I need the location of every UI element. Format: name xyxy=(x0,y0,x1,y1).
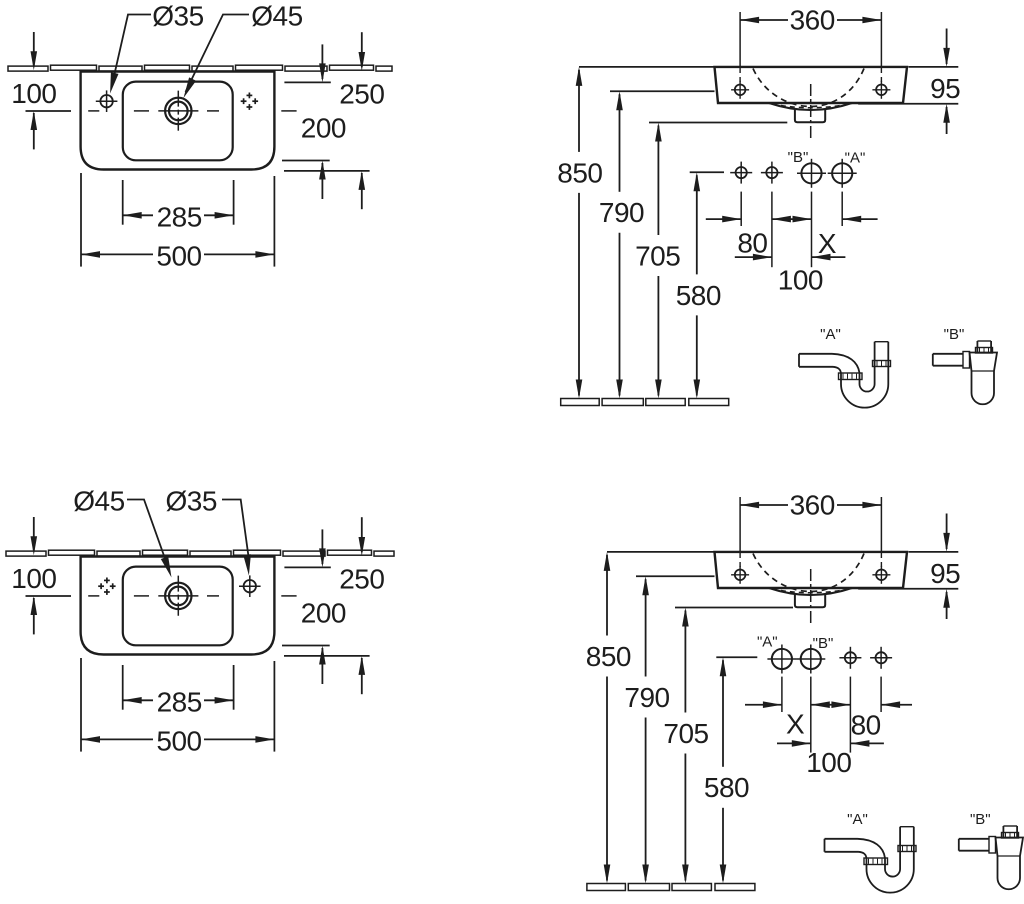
dimension 580 vertical line with arrows xyxy=(696,175,698,274)
svg-text:100: 100 xyxy=(778,265,823,296)
dimension 250 upper arrow xyxy=(361,517,363,552)
svg-text:850: 850 xyxy=(586,641,631,672)
dimension 285 line with arrows xyxy=(123,214,153,216)
dimension line 100 with arrows xyxy=(735,256,772,258)
svg-text:"B": "B" xyxy=(788,149,809,166)
wall tap hole marker large xyxy=(832,163,852,183)
wall tap hole marker small xyxy=(845,652,856,663)
svg-text:Ø35: Ø35 xyxy=(165,486,216,517)
dimension 250 lower arrow xyxy=(361,173,363,209)
drain vertical centreline xyxy=(177,576,179,616)
washbasin body (front elevation) xyxy=(715,67,908,103)
svg-text:250: 250 xyxy=(339,564,384,595)
dimension 790 extension line xyxy=(636,575,715,577)
washbasin body (front elevation) xyxy=(715,552,908,588)
svg-text:"B": "B" xyxy=(813,635,834,652)
dimension 360 line with arrows xyxy=(740,504,788,506)
dimension 705 extension line xyxy=(649,122,787,124)
svg-text:"A": "A" xyxy=(757,634,778,651)
dimension 580 vertical line with arrows xyxy=(722,660,724,767)
svg-text:500: 500 xyxy=(156,725,201,756)
drain vertical centreline xyxy=(177,91,179,131)
dashed bowl underside line xyxy=(772,104,849,108)
dimension 360 extension lines xyxy=(739,497,741,552)
dimension 360 line with arrows xyxy=(740,19,788,21)
siphon variant B (bottle trap) xyxy=(959,838,989,840)
dimension 250 lower arrow xyxy=(361,658,363,694)
dimension 360 extension lines xyxy=(739,12,741,67)
dimension 580 extension line xyxy=(690,171,724,173)
drain hole Ø45 (two concentric circles) xyxy=(165,583,191,609)
wall tap hole marker small xyxy=(736,167,747,178)
dimension 200 lower arrow xyxy=(321,163,323,199)
dimension 790 extension line xyxy=(610,90,715,92)
svg-text:"B": "B" xyxy=(944,326,965,343)
dimension 285 line with arrows xyxy=(123,699,153,701)
svg-text:Ø45: Ø45 xyxy=(251,1,302,32)
wall line (plan view) xyxy=(8,66,48,71)
svg-text:360: 360 xyxy=(790,4,835,35)
dimension 100 lower arrow xyxy=(33,113,35,149)
inner bowl outline (plan) xyxy=(123,567,233,646)
svg-text:100: 100 xyxy=(11,78,56,109)
dimension 285 extension lines xyxy=(122,180,124,225)
svg-text:285: 285 xyxy=(157,201,202,232)
svg-text:850: 850 xyxy=(557,157,602,188)
svg-text:Ø45: Ø45 xyxy=(73,486,124,517)
washbasin outer outline (plan) xyxy=(81,557,275,655)
siphon variant A (P-trap) xyxy=(799,353,832,355)
dimension 95 arrows xyxy=(946,514,948,550)
leader line to Ø45 hole xyxy=(127,500,170,573)
leader line to Ø35 hole xyxy=(111,15,151,89)
dimension 100 upper arrow xyxy=(33,517,35,551)
svg-text:100: 100 xyxy=(806,747,851,778)
tap hole Ø35 with centre cross xyxy=(244,580,256,592)
extension line bowl top edge xyxy=(284,81,330,83)
wall tap hole marker small xyxy=(876,652,887,663)
svg-text:285: 285 xyxy=(157,686,202,717)
siphon variant B (bottle trap) xyxy=(933,353,963,355)
svg-text:95: 95 xyxy=(930,558,960,589)
dimension 790 vertical line with arrows xyxy=(645,579,647,676)
bowl underside bulge xyxy=(769,588,852,595)
dimension line X / 80 with arrows xyxy=(745,704,782,706)
floor line (segmented) xyxy=(561,399,600,406)
dimension 500 line with arrows xyxy=(81,738,153,740)
svg-text:500: 500 xyxy=(156,240,201,271)
horizontal centreline dashes through drain xyxy=(88,595,99,597)
basin fixing hole xyxy=(735,570,746,581)
extension line bowl top edge xyxy=(284,566,330,568)
basin fixing hole xyxy=(876,85,887,96)
dimension 500 extension lines xyxy=(80,173,82,267)
dashed inner bowl contour xyxy=(753,69,864,107)
wall line (plan view) xyxy=(6,551,46,556)
dimension 850 extension line xyxy=(607,551,715,553)
dimension 500 line with arrows xyxy=(81,253,153,255)
horizontal centreline dashes through drain xyxy=(88,110,99,112)
dimension 285 extension lines xyxy=(122,665,124,710)
floor line (segmented) xyxy=(587,884,626,891)
dimension 200 lower arrow xyxy=(321,648,323,684)
dimension 705 extension line xyxy=(675,607,793,609)
svg-text:580: 580 xyxy=(676,280,721,311)
svg-text:80: 80 xyxy=(737,227,767,258)
dimension 705 vertical line with arrows xyxy=(657,126,659,236)
dimension 95 extension lines xyxy=(909,66,959,68)
dimension 705 vertical line with arrows xyxy=(684,611,686,713)
svg-text:790: 790 xyxy=(624,682,669,713)
svg-text:200: 200 xyxy=(301,597,346,628)
dashed bowl underside line xyxy=(772,589,849,593)
svg-text:580: 580 xyxy=(704,772,749,803)
basin fixing hole xyxy=(876,570,887,581)
svg-text:705: 705 xyxy=(663,718,708,749)
dimension 580 extension line xyxy=(716,656,757,658)
dimension 100 extension line xyxy=(26,595,72,597)
dimension 850 vertical line with arrows xyxy=(578,70,580,152)
wall tap hole marker large xyxy=(772,649,792,669)
extension lines below hole group xyxy=(740,192,742,226)
svg-text:"A": "A" xyxy=(847,811,868,828)
dimension 95 extension lines xyxy=(909,551,959,553)
dimension 850 extension line xyxy=(579,66,715,68)
svg-text:705: 705 xyxy=(635,240,680,271)
vertical centreline through drain xyxy=(810,84,812,139)
dimension line 80 / X with arrows xyxy=(706,218,741,220)
svg-text:100: 100 xyxy=(11,563,56,594)
drain outlet stub xyxy=(795,594,825,608)
vertical centreline through drain xyxy=(810,569,812,624)
extension line bowl bottom edge xyxy=(282,645,330,647)
wall tap hole marker large xyxy=(801,649,821,669)
dimension 100 extension line xyxy=(26,110,72,112)
svg-text:80: 80 xyxy=(851,710,881,741)
alternate tap-hole position marker (four crosses) xyxy=(247,94,253,96)
washbasin outer outline (plan) xyxy=(81,72,275,170)
dimension 95 arrows xyxy=(946,29,948,65)
dimension 200 upper arrow xyxy=(321,529,323,564)
dimension 790 vertical line with arrows xyxy=(619,94,621,192)
dimension 250 upper arrow xyxy=(361,32,363,67)
svg-text:"A": "A" xyxy=(845,150,866,167)
svg-text:"A": "A" xyxy=(820,326,841,343)
bowl underside bulge xyxy=(769,103,852,110)
extension line bowl bottom edge xyxy=(282,160,330,162)
svg-text:250: 250 xyxy=(339,79,384,110)
leader line to Ø45 hole xyxy=(186,15,250,93)
extension line basin front edge xyxy=(284,655,370,657)
dimension 500 extension lines xyxy=(80,658,82,752)
alternate tap-hole position marker (four crosses) xyxy=(104,579,110,581)
dimension 100 lower arrow xyxy=(33,598,35,634)
svg-text:360: 360 xyxy=(790,489,835,520)
dimension 200 upper arrow xyxy=(321,44,323,79)
extension line basin front edge xyxy=(284,170,370,172)
inner bowl outline (plan) xyxy=(123,82,233,161)
drain hole Ø45 (two concentric circles) xyxy=(165,98,191,124)
leader line to Ø35 hole xyxy=(222,500,248,556)
svg-text:790: 790 xyxy=(599,197,644,228)
dashed inner bowl contour xyxy=(753,554,864,592)
wall tap hole marker large xyxy=(801,163,821,183)
svg-text:"B": "B" xyxy=(970,811,991,828)
svg-text:X: X xyxy=(786,708,805,739)
svg-text:95: 95 xyxy=(930,73,960,104)
svg-text:Ø35: Ø35 xyxy=(152,1,203,32)
dimension 100 upper arrow xyxy=(33,32,35,66)
basin fixing hole xyxy=(735,85,746,96)
wall tap hole marker small xyxy=(766,167,777,178)
svg-text:200: 200 xyxy=(301,112,346,143)
tap hole Ø35 with centre cross xyxy=(100,95,112,107)
drain outlet stub xyxy=(795,109,825,123)
dimension 850 vertical line with arrows xyxy=(606,555,608,636)
siphon variant A (P-trap) xyxy=(825,838,858,840)
dimension line 100 with arrows xyxy=(777,742,811,744)
extension lines below hole group xyxy=(781,677,783,712)
